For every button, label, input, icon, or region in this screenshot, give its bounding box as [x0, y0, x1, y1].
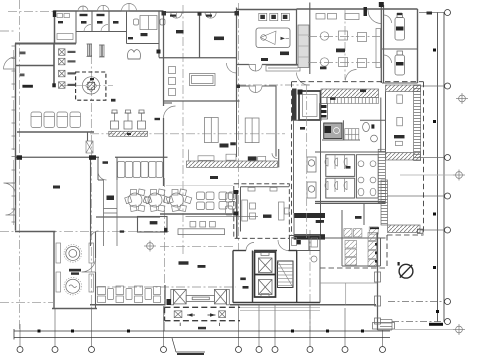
kitchen hatched counter top — [321, 89, 379, 98]
right dimension ticks — [433, 49, 439, 314]
hatched band B — [378, 149, 385, 203]
lobby low wall / counter y212 — [160, 213, 237, 215]
wing window radiators — [56, 243, 94, 292]
column symbols with x — [59, 49, 66, 89]
black jamb office corridor — [157, 50, 161, 54]
round table 1 — [125, 189, 151, 212]
top-left wing wall y41 — [15, 43, 76, 45]
hall east wall x236.5 lower — [236, 101, 238, 157]
corridor walls mid service — [292, 98, 386, 153]
bottom dimension lines — [14, 329, 390, 340]
water heaters — [395, 14, 405, 76]
lounge right wall x276 — [276, 86, 279, 167]
door arcs at x121-136 top wall — [122, 4, 137, 12]
billiard right wall — [296, 10, 298, 65]
billiard bottom wall with door — [237, 64, 311, 66]
elevator cars — [259, 258, 273, 295]
south wall of toilet block — [315, 202, 386, 204]
lounge chaise row — [31, 112, 81, 128]
fountain column hatched — [88, 82, 95, 89]
small title box bottom right — [373, 323, 454, 330]
survey crosshair markers — [144, 93, 468, 335]
fountain circle — [82, 77, 99, 94]
big chair in corridor — [128, 50, 141, 59]
armchairs left of staff room — [226, 193, 233, 215]
no-access circle-slash symbol — [399, 264, 413, 278]
bath block walls — [292, 203, 386, 238]
column symbol labels — [20, 51, 76, 86]
wing bottom wall — [52, 308, 97, 310]
entrance porch colonnade — [171, 289, 230, 304]
door arcs top right rooms — [384, 15, 392, 63]
sofa row upper — [118, 162, 163, 178]
gym divider wall y65.5 — [16, 65, 54, 67]
wall between stalls block — [342, 238, 381, 266]
sauna west dark band — [292, 89, 297, 121]
armchair group 1 — [197, 192, 215, 210]
wall y231.5 — [15, 231, 56, 233]
toilet stall rooms — [321, 152, 355, 203]
reception desk — [178, 229, 225, 235]
terrace edge lines — [320, 283, 377, 305]
shelf grid — [345, 129, 359, 140]
porch arrows — [187, 313, 216, 317]
staff room solid walls — [241, 187, 290, 232]
core side walls — [233, 251, 297, 303]
top wall y12 x163-239 — [163, 11, 239, 13]
right bubble connector stubs — [387, 13, 445, 322]
corner column blocks — [162, 11, 240, 16]
small rooms right of core — [290, 236, 321, 303]
sidewalk lines at entrance — [240, 308, 320, 311]
barber west wall — [88, 132, 91, 246]
bottom dimension ticks — [38, 330, 365, 333]
wc room partitions top-left — [76, 11, 127, 44]
door arc at barber south — [98, 172, 107, 181]
gray band shaft — [298, 25, 309, 68]
door arc west wall bottom — [91, 231, 99, 239]
bottom leader label — [172, 338, 205, 352]
dash-dot service centerline — [307, 37, 382, 241]
big room furniture — [316, 14, 381, 68]
big room door arcs — [297, 10, 382, 85]
wing door arcs — [82, 258, 96, 272]
small tick above symbol — [398, 262, 400, 266]
water tanks on grid line — [307, 157, 316, 198]
office room walls — [127, 11, 160, 58]
top wall y11 from x54 to x163 — [54, 10, 164, 12]
right grid bubbles — [445, 10, 451, 325]
barber hatched counter — [109, 131, 148, 136]
top wall y9 x296-418 — [297, 8, 418, 10]
shower stalls hatched — [344, 227, 378, 237]
porch dashed edges — [165, 307, 241, 320]
core north wall y250.5 with doors — [233, 250, 297, 252]
hatched wing wall right — [388, 225, 421, 233]
equipment tick row under counter — [327, 98, 379, 104]
dashed scope boundary — [292, 82, 424, 268]
top row room doors inside — [84, 25, 108, 32]
billiard door arcs — [249, 65, 262, 72]
gym/barber divider x92 — [53, 44, 55, 88]
wall chase corridor below room — [104, 180, 118, 246]
door arc at counter right — [272, 153, 278, 159]
hatched vertical band A — [414, 85, 421, 161]
stall dividers w fixtures — [325, 155, 347, 192]
conservatory furniture row — [98, 286, 161, 303]
door arcs left wall outside — [4, 57, 16, 215]
billiard table — [256, 28, 290, 48]
washroom with basins — [357, 155, 379, 198]
low wall y217 left of lobby — [96, 216, 160, 218]
left outer wall with windows — [15, 44, 17, 231]
right outer wall x418 — [417, 9, 419, 83]
meeting room chairs — [169, 67, 176, 96]
porch small x-columns — [174, 311, 225, 318]
small room x98-117 — [98, 157, 117, 180]
hatched vertical band B2 — [381, 180, 388, 225]
dark jamb at top — [364, 2, 384, 16]
office desk — [134, 16, 166, 30]
spa tub 2 — [66, 279, 80, 293]
top wall y9.5 x239-296 — [237, 9, 297, 11]
barber south wall y157 — [115, 156, 168, 158]
steps bottom right — [378, 320, 393, 331]
dark wall x237 with blobs — [236, 190, 238, 238]
wc fixtures — [363, 122, 378, 142]
armchair group 2 — [219, 192, 236, 209]
black jamb at x54 top — [53, 11, 56, 18]
elevator doors — [261, 253, 269, 297]
wing right wall pieces — [95, 232, 97, 309]
shelf line behind desk — [186, 216, 259, 218]
bar shelf row above counter — [189, 150, 266, 162]
gym south wall y95 — [17, 131, 94, 133]
stairs — [278, 261, 294, 288]
fountain centerlines — [60, 84, 113, 86]
barber stations — [111, 110, 146, 129]
big room centerline — [344, 10, 346, 80]
x-door in divider — [86, 141, 93, 153]
dark pantry room — [324, 123, 342, 139]
staff room dashed boundary — [234, 184, 289, 239]
fixtures in small rooms — [292, 238, 318, 263]
elevator shaft walls — [255, 252, 276, 297]
round table 3 — [166, 189, 192, 212]
bottom grid bubbles — [17, 347, 386, 353]
shower stall columns lower — [345, 233, 376, 267]
room divider walls — [159, 8, 240, 102]
reception chairs — [190, 222, 215, 228]
porch tick marks below — [180, 323, 219, 326]
pilaster wall x376-380 — [377, 233, 379, 331]
hall display cabinets — [204, 118, 259, 143]
entry door jamb black — [167, 299, 172, 305]
spa tub 1 — [66, 246, 80, 260]
staff room furniture — [242, 188, 289, 222]
wall x54 top-left — [54, 11, 56, 44]
wall screen right of big room — [381, 5, 383, 83]
sauna dark-walled room — [299, 91, 321, 120]
grid drop lines to bottom bubbles — [20, 305, 383, 347]
hatched bottom band of equip room — [386, 153, 421, 161]
conference table — [190, 74, 216, 86]
fountain dashed box — [76, 72, 106, 100]
wall y153 left big room — [16, 156, 100, 158]
wall left of porch — [164, 285, 166, 305]
equip room hatched walls (right block) — [386, 85, 421, 92]
grid axis dash-dot lines — [0, 0, 312, 331]
sideboard under billiard wall — [266, 66, 300, 72]
gym dumbbell equipment — [87, 44, 105, 57]
lower right rooms — [417, 229, 423, 233]
dark walled room below tanks — [294, 213, 325, 240]
top right water heater rooms — [382, 49, 418, 83]
big room left wall — [309, 3, 311, 75]
corridor wall y86 with door opening — [237, 85, 277, 87]
bar hatched counter — [187, 161, 278, 167]
lockers in room 54-76 — [57, 14, 73, 40]
core south wall — [233, 302, 320, 304]
door arcs on top wall outside — [78, 5, 216, 18]
wing left wall x54 — [53, 232, 55, 310]
small room below lounge — [138, 217, 168, 233]
billiard seats top — [260, 15, 287, 19]
left wall window ticks — [12, 46, 16, 222]
hall west wall below meeting room — [163, 101, 165, 186]
equipment column stack — [320, 104, 328, 120]
right dimension lines — [438, 12, 445, 322]
hall labels — [220, 142, 236, 147]
round table 2 — [145, 189, 171, 212]
service west wall x293 — [293, 120, 295, 213]
core door arcs — [246, 240, 289, 251]
main bottom wall y304.5 — [90, 304, 376, 306]
equip room interior — [386, 92, 403, 153]
meeting room door right — [227, 63, 237, 73]
